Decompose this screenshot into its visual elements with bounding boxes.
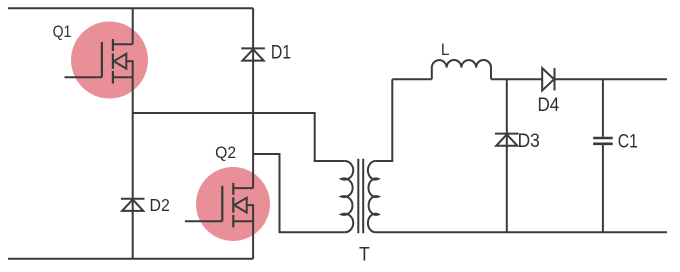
- svg-text:Q2: Q2: [215, 143, 236, 162]
- Q1 arrow: [114, 54, 127, 69]
- svg-text:D3: D3: [518, 131, 540, 152]
- wire: output top rail to inductor: [392, 78, 432, 80]
- capacitor C1 bottom lead: [602, 145, 604, 232]
- wire: Q2 source to bottom rail: [252, 221, 254, 259]
- wire: Q1 drain lead from top rail: [132, 8, 134, 44]
- Q2 arrow: [234, 198, 247, 213]
- wire: top input rail: [8, 7, 253, 9]
- D4 cathode bar: [554, 68, 556, 90]
- svg-text:D1: D1: [271, 42, 291, 63]
- highlight circle over Q1: [71, 22, 148, 99]
- D2 triangle: [122, 200, 143, 211]
- D3 triangle: [496, 134, 517, 145]
- svg-text:L: L: [441, 40, 450, 59]
- wire: secondary top lead up to output rail: [376, 79, 393, 161]
- svg-text:T: T: [359, 245, 370, 266]
- wire: output bottom rail: [376, 231, 667, 233]
- Q2 channel segment body: [232, 197, 234, 212]
- diode D1: [241, 48, 265, 60]
- Q1 source stub: [113, 76, 133, 78]
- Q1 drain stub: [113, 43, 133, 45]
- wire: node A to transformer primary top: [133, 113, 345, 161]
- transformer T core line right: [362, 159, 364, 234]
- capacitor C1 plates: [593, 138, 613, 144]
- Q2 channel segment source: [232, 215, 234, 228]
- D3 cathode bar: [495, 133, 519, 135]
- transistor Q2 (MOSFET): [185, 183, 253, 228]
- diode D3: [495, 134, 519, 146]
- Q2 gate lead: [185, 220, 222, 222]
- svg-text:D2: D2: [150, 195, 170, 215]
- D1 cathode bar: [241, 47, 265, 49]
- transformer T core line left: [357, 159, 359, 234]
- Q1 gate lead: [65, 76, 102, 78]
- wire: inductor to D4 anode: [491, 78, 542, 80]
- Q1 channel segment source: [112, 71, 114, 84]
- wire: bottom input rail: [8, 258, 253, 260]
- transistor Q1 (MOSFET): [65, 39, 133, 84]
- Q2 source stub: [233, 220, 253, 222]
- diode D2: [121, 199, 145, 211]
- Q2 gate bar: [221, 186, 223, 221]
- svg-text:C1: C1: [618, 131, 638, 152]
- wire: D1 branch vertical (top rail to Q2 drain): [252, 8, 254, 188]
- Q1 body link: [126, 61, 132, 77]
- Q1 channel segment body: [112, 53, 114, 68]
- svg-text:Q1: Q1: [53, 22, 72, 41]
- Q2 channel segment drain: [232, 183, 234, 195]
- wire: branch to transformer primary bottom: [253, 154, 345, 232]
- wire: D4 cathode to output right end: [555, 78, 668, 80]
- D2 cathode bar: [121, 198, 145, 200]
- wire: D3 branch vertical: [506, 79, 508, 232]
- Q2 drain stub: [233, 187, 253, 189]
- Q2 body link: [247, 205, 253, 221]
- capacitor C1 top lead: [602, 79, 604, 136]
- transformer T secondary winding: [368, 161, 378, 232]
- diode D4: [542, 68, 554, 90]
- D1 triangle: [243, 49, 264, 60]
- inductor L: [432, 60, 491, 79]
- Q1 channel segment drain: [112, 39, 114, 51]
- svg-text:D4: D4: [538, 95, 560, 116]
- D4 triangle: [542, 68, 554, 90]
- wire: Q1 source down through D2 to bottom rail: [132, 77, 134, 258]
- transformer T primary winding: [341, 161, 353, 232]
- Q1 gate bar: [101, 42, 103, 77]
- highlight circle over Q2: [196, 167, 270, 241]
